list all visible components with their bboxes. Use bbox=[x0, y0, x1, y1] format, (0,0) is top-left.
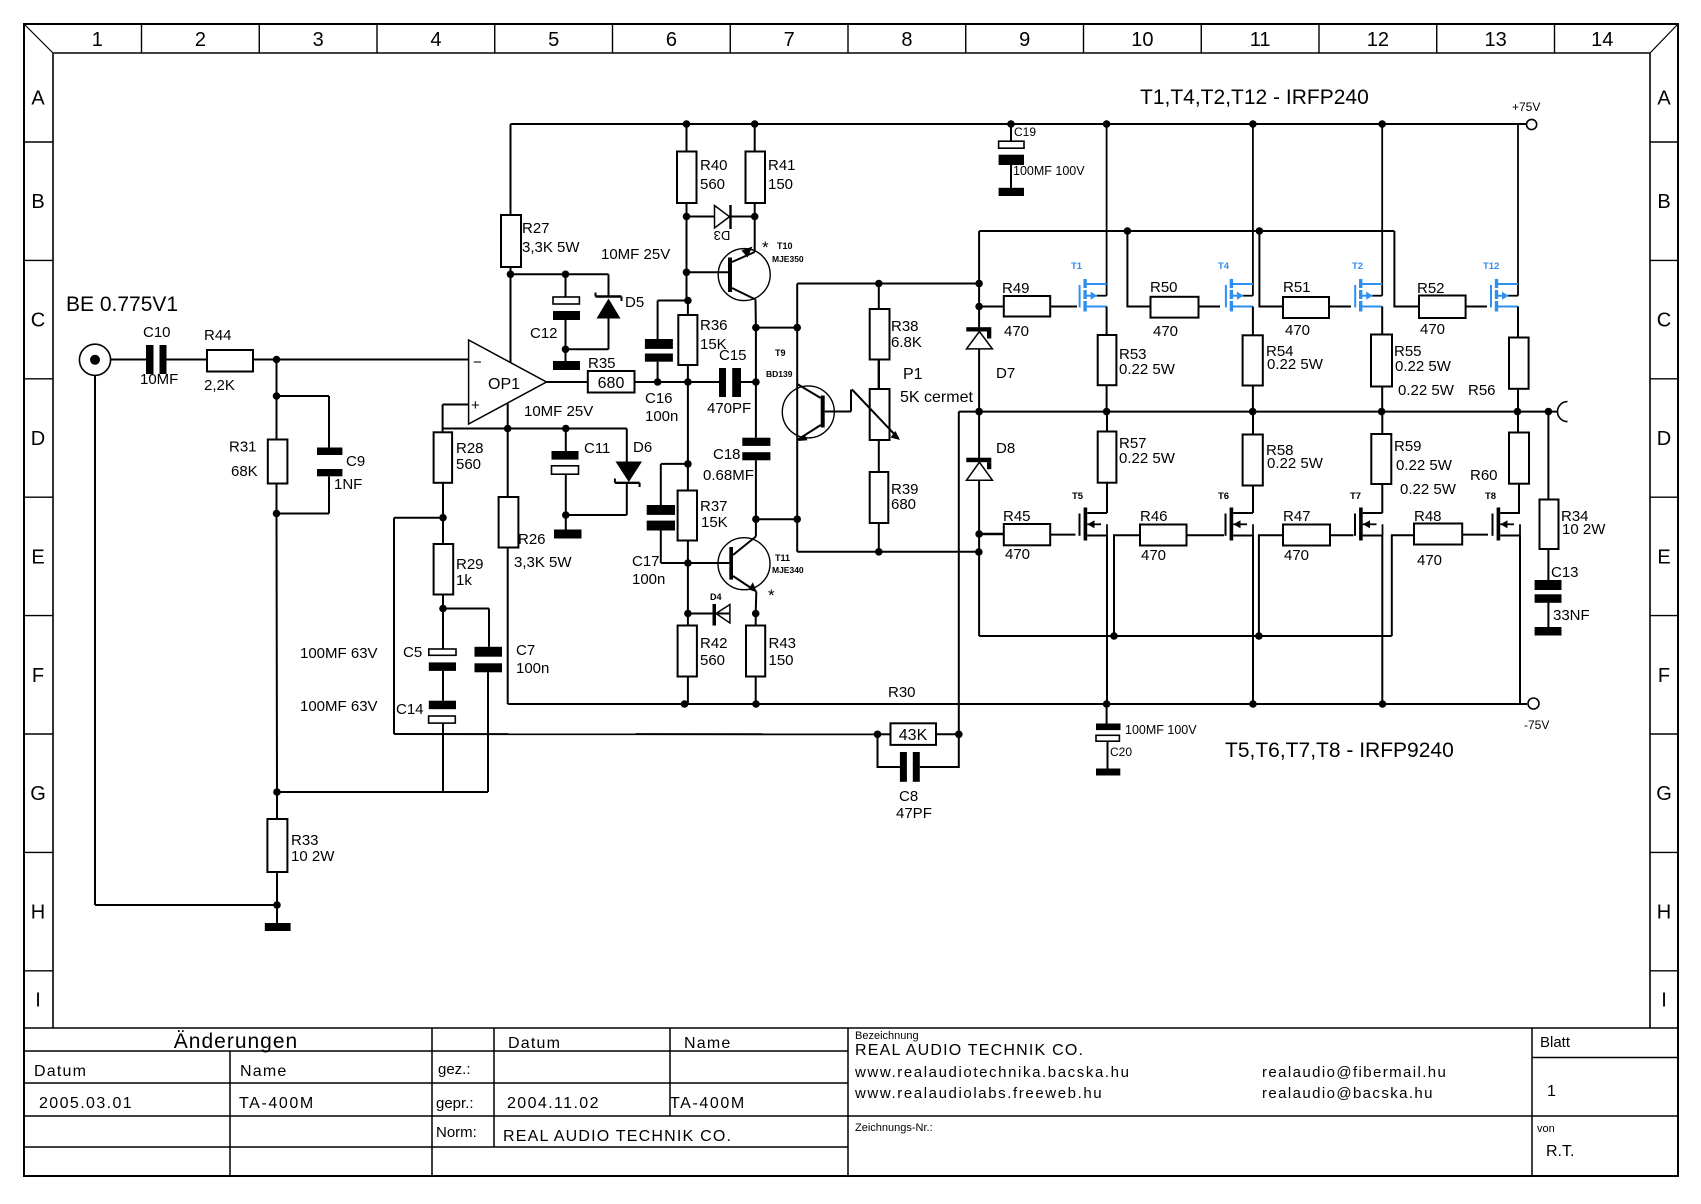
svg-text:B: B bbox=[1657, 191, 1670, 213]
svg-text:D6: D6 bbox=[633, 439, 652, 456]
svg-text:www.realaudiolabs.freeweb.hu: www.realaudiolabs.freeweb.hu bbox=[854, 1085, 1103, 1102]
svg-text:7: 7 bbox=[784, 29, 795, 51]
svg-text:E: E bbox=[31, 546, 44, 568]
svg-text:6: 6 bbox=[666, 29, 677, 51]
svg-text:D: D bbox=[1657, 428, 1671, 450]
svg-text:BD139: BD139 bbox=[766, 369, 793, 379]
svg-text:R48: R48 bbox=[1414, 508, 1442, 525]
svg-text:11: 11 bbox=[1250, 29, 1271, 51]
svg-text:+75V: +75V bbox=[1512, 100, 1540, 114]
svg-text:von: von bbox=[1537, 1123, 1555, 1135]
svg-text:470: 470 bbox=[1417, 552, 1442, 569]
svg-text:C19: C19 bbox=[1014, 125, 1036, 139]
svg-text:H: H bbox=[1657, 902, 1671, 924]
svg-text:560: 560 bbox=[700, 652, 725, 669]
svg-text:-75V: -75V bbox=[1524, 718, 1549, 732]
svg-text:150: 150 bbox=[769, 652, 794, 669]
svg-text:R42: R42 bbox=[700, 635, 728, 652]
svg-text:3,3K 5W: 3,3K 5W bbox=[514, 554, 572, 571]
svg-text:0.22 5W: 0.22 5W bbox=[1267, 356, 1324, 373]
svg-text:T9: T9 bbox=[775, 348, 786, 358]
svg-text:realaudio@fibermail.hu: realaudio@fibermail.hu bbox=[1262, 1064, 1447, 1081]
svg-text:T5,T6,T7,T8 - IRFP9240: T5,T6,T7,T8 - IRFP9240 bbox=[1225, 739, 1454, 762]
svg-text:100MF 63V: 100MF 63V bbox=[300, 698, 378, 715]
svg-text:10 2W: 10 2W bbox=[1562, 521, 1606, 538]
svg-text:TA-400M: TA-400M bbox=[670, 1095, 746, 1112]
svg-text:470: 470 bbox=[1285, 322, 1310, 339]
svg-text:C13: C13 bbox=[1551, 564, 1579, 581]
svg-text:0.22 5W: 0.22 5W bbox=[1267, 455, 1324, 472]
svg-text:T12: T12 bbox=[1483, 261, 1499, 272]
svg-text:gepr.:: gepr.: bbox=[436, 1095, 474, 1112]
svg-text:0.68MF: 0.68MF bbox=[703, 467, 754, 484]
svg-text:gez.:: gez.: bbox=[438, 1061, 471, 1078]
svg-text:T6: T6 bbox=[1218, 491, 1229, 502]
svg-text:C9: C9 bbox=[346, 453, 365, 470]
svg-text:R43: R43 bbox=[769, 635, 797, 652]
svg-text:Norm:: Norm: bbox=[436, 1124, 477, 1141]
svg-text:1NF: 1NF bbox=[334, 476, 362, 493]
svg-text:OP1: OP1 bbox=[488, 376, 520, 393]
svg-text:C10: C10 bbox=[143, 324, 171, 341]
svg-text:R50: R50 bbox=[1150, 279, 1178, 296]
svg-text:R28: R28 bbox=[456, 440, 484, 457]
svg-text:R29: R29 bbox=[456, 556, 484, 573]
svg-text:B: B bbox=[31, 191, 44, 213]
svg-text:C20: C20 bbox=[1110, 745, 1132, 759]
svg-text:T8: T8 bbox=[1485, 491, 1496, 502]
svg-text:470: 470 bbox=[1005, 546, 1030, 563]
svg-text:R49: R49 bbox=[1002, 280, 1030, 297]
svg-text:C18: C18 bbox=[713, 446, 741, 463]
svg-text:A: A bbox=[31, 88, 45, 110]
svg-text:0.22 5W: 0.22 5W bbox=[1119, 361, 1176, 378]
svg-text:T5: T5 bbox=[1072, 491, 1084, 502]
svg-text:T11: T11 bbox=[775, 553, 790, 563]
svg-text:R41: R41 bbox=[768, 157, 796, 174]
svg-text:R56: R56 bbox=[1468, 382, 1496, 399]
svg-text:MJE350: MJE350 bbox=[772, 254, 804, 264]
svg-text:R33: R33 bbox=[291, 832, 319, 849]
svg-text:C17: C17 bbox=[632, 553, 660, 570]
svg-text:*: * bbox=[762, 238, 769, 257]
svg-text:I: I bbox=[1661, 989, 1667, 1011]
svg-text:C16: C16 bbox=[645, 390, 673, 407]
svg-text:D3: D3 bbox=[714, 228, 731, 243]
svg-text:47PF: 47PF bbox=[896, 805, 932, 822]
svg-text:470: 470 bbox=[1420, 321, 1445, 338]
svg-text:R45: R45 bbox=[1003, 508, 1031, 525]
svg-text:R.T.: R.T. bbox=[1546, 1143, 1574, 1160]
svg-text:68K: 68K bbox=[231, 463, 258, 480]
svg-text:10 2W: 10 2W bbox=[291, 848, 335, 865]
svg-text:15K: 15K bbox=[700, 336, 727, 353]
svg-text:150: 150 bbox=[768, 176, 793, 193]
svg-text:14: 14 bbox=[1591, 29, 1613, 51]
svg-text:3: 3 bbox=[313, 29, 324, 51]
svg-text:Zeichnungs-Nr.:: Zeichnungs-Nr.: bbox=[855, 1122, 933, 1134]
svg-text:Name: Name bbox=[240, 1063, 287, 1080]
svg-text:E: E bbox=[1657, 546, 1670, 568]
svg-text:1: 1 bbox=[1547, 1083, 1556, 1100]
svg-text:T1,T4,T2,T12 - IRFP240: T1,T4,T2,T12 - IRFP240 bbox=[1140, 86, 1369, 109]
svg-text:R59: R59 bbox=[1394, 438, 1422, 455]
svg-text:C7: C7 bbox=[516, 642, 535, 659]
svg-text:R27: R27 bbox=[522, 220, 550, 237]
svg-text:Blatt: Blatt bbox=[1540, 1034, 1571, 1051]
svg-text:15K: 15K bbox=[701, 514, 728, 531]
svg-text:TA-400M: TA-400M bbox=[239, 1095, 315, 1112]
svg-text:T10: T10 bbox=[777, 241, 793, 251]
svg-text:D7: D7 bbox=[996, 365, 1015, 382]
svg-text:10MF: 10MF bbox=[140, 371, 178, 388]
svg-text:13: 13 bbox=[1485, 29, 1507, 51]
svg-text:680: 680 bbox=[598, 375, 625, 392]
svg-text:D4: D4 bbox=[710, 592, 722, 602]
svg-text:+: + bbox=[471, 397, 480, 414]
svg-text:C11: C11 bbox=[584, 440, 610, 457]
svg-text:C: C bbox=[1657, 310, 1671, 332]
svg-text:100MF 100V: 100MF 100V bbox=[1013, 164, 1085, 178]
svg-text:10: 10 bbox=[1131, 29, 1153, 51]
svg-text:470: 470 bbox=[1004, 323, 1029, 340]
svg-text:T2: T2 bbox=[1352, 261, 1363, 272]
svg-text:470: 470 bbox=[1284, 547, 1309, 564]
svg-text:Name: Name bbox=[684, 1035, 731, 1052]
svg-text:BE 0.775V1: BE 0.775V1 bbox=[66, 293, 178, 316]
svg-text:10MF 25V: 10MF 25V bbox=[524, 403, 593, 420]
svg-text:2005.03.01: 2005.03.01 bbox=[39, 1095, 133, 1112]
svg-text:R44: R44 bbox=[204, 327, 232, 344]
svg-text:R35: R35 bbox=[588, 355, 616, 372]
svg-text:43K: 43K bbox=[899, 727, 928, 744]
svg-text:P1: P1 bbox=[903, 366, 923, 383]
svg-text:560: 560 bbox=[456, 456, 481, 473]
svg-text:REAL AUDIO TECHNIK CO.: REAL AUDIO TECHNIK CO. bbox=[855, 1042, 1084, 1059]
svg-text:680: 680 bbox=[891, 496, 916, 513]
svg-text:Datum: Datum bbox=[34, 1063, 87, 1080]
svg-text:0.22 5W: 0.22 5W bbox=[1395, 358, 1452, 375]
svg-text:0.22 5W: 0.22 5W bbox=[1400, 481, 1457, 498]
svg-text:R47: R47 bbox=[1283, 508, 1311, 525]
svg-text:C8: C8 bbox=[899, 788, 918, 805]
svg-text:R38: R38 bbox=[891, 318, 919, 335]
svg-text:T7: T7 bbox=[1350, 491, 1361, 502]
svg-text:100MF 63V: 100MF 63V bbox=[300, 645, 378, 662]
svg-text:C: C bbox=[31, 310, 45, 332]
svg-text:5: 5 bbox=[548, 29, 559, 51]
svg-text:100n: 100n bbox=[632, 571, 665, 588]
svg-text:470PF: 470PF bbox=[707, 400, 751, 417]
svg-text:H: H bbox=[31, 902, 45, 924]
svg-text:F: F bbox=[32, 665, 44, 687]
svg-text:G: G bbox=[30, 783, 46, 805]
svg-text:C5: C5 bbox=[403, 644, 422, 661]
svg-text:3,3K 5W: 3,3K 5W bbox=[522, 239, 580, 256]
svg-text:470: 470 bbox=[1153, 323, 1178, 340]
svg-text:100MF 100V: 100MF 100V bbox=[1125, 723, 1197, 737]
svg-text:G: G bbox=[1656, 783, 1672, 805]
svg-text:4: 4 bbox=[430, 29, 441, 51]
svg-text:C12: C12 bbox=[530, 325, 558, 342]
svg-text:R30: R30 bbox=[888, 684, 916, 701]
svg-text:2: 2 bbox=[195, 29, 206, 51]
svg-text:D: D bbox=[31, 428, 45, 450]
svg-text:0.22 5W: 0.22 5W bbox=[1398, 382, 1455, 399]
svg-text:2,2K: 2,2K bbox=[204, 377, 235, 394]
svg-text:2004.11.02: 2004.11.02 bbox=[507, 1095, 600, 1112]
svg-text:Änderungen: Änderungen bbox=[174, 1030, 298, 1053]
svg-text:12: 12 bbox=[1367, 29, 1389, 51]
svg-text:realaudio@bacska.hu: realaudio@bacska.hu bbox=[1262, 1085, 1434, 1102]
svg-text:R26: R26 bbox=[518, 531, 546, 548]
svg-text:F: F bbox=[1658, 665, 1670, 687]
svg-text:R51: R51 bbox=[1283, 279, 1311, 296]
svg-text:T4: T4 bbox=[1218, 261, 1230, 272]
svg-text:MJE340: MJE340 bbox=[772, 565, 804, 575]
svg-text:9: 9 bbox=[1019, 29, 1030, 51]
svg-text:R37: R37 bbox=[700, 498, 728, 515]
svg-text:R36: R36 bbox=[700, 317, 728, 334]
svg-text:560: 560 bbox=[700, 176, 725, 193]
svg-text:www.realaudiotechnika.bacska.h: www.realaudiotechnika.bacska.hu bbox=[854, 1064, 1131, 1081]
svg-text:D5: D5 bbox=[625, 294, 644, 311]
svg-text:100n: 100n bbox=[516, 660, 549, 677]
svg-text:6.8K: 6.8K bbox=[891, 334, 922, 351]
svg-text:C14: C14 bbox=[396, 701, 424, 718]
svg-text:1k: 1k bbox=[456, 572, 472, 589]
svg-text:1: 1 bbox=[92, 29, 103, 51]
svg-text:I: I bbox=[35, 989, 41, 1011]
svg-text:R60: R60 bbox=[1470, 467, 1498, 484]
svg-text:8: 8 bbox=[901, 29, 912, 51]
svg-text:Datum: Datum bbox=[508, 1035, 561, 1052]
svg-text:R46: R46 bbox=[1140, 508, 1168, 525]
svg-text:D8: D8 bbox=[996, 440, 1015, 457]
svg-text:R52: R52 bbox=[1417, 280, 1445, 297]
svg-text:−: − bbox=[473, 354, 482, 371]
svg-text:5K cermet: 5K cermet bbox=[900, 389, 973, 406]
svg-text:A: A bbox=[1657, 88, 1671, 110]
svg-text:100n: 100n bbox=[645, 408, 678, 425]
svg-text:Bezeichnung: Bezeichnung bbox=[855, 1030, 919, 1042]
svg-text:R31: R31 bbox=[229, 439, 257, 456]
svg-text:0.22 5W: 0.22 5W bbox=[1119, 450, 1176, 467]
svg-text:REAL AUDIO TECHNIK CO.: REAL AUDIO TECHNIK CO. bbox=[503, 1128, 732, 1145]
svg-text:33NF: 33NF bbox=[1553, 607, 1590, 624]
svg-text:R40: R40 bbox=[700, 157, 728, 174]
svg-text:*: * bbox=[768, 586, 775, 605]
svg-text:10MF 25V: 10MF 25V bbox=[601, 246, 670, 263]
svg-text:0.22 5W: 0.22 5W bbox=[1396, 457, 1453, 474]
svg-text:T1: T1 bbox=[1071, 261, 1083, 272]
svg-text:470: 470 bbox=[1141, 547, 1166, 564]
